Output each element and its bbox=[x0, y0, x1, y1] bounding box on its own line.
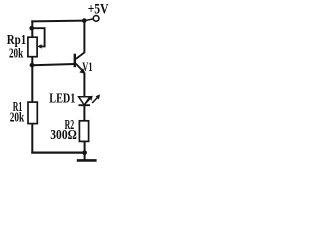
transistor V1 base bar bbox=[74, 54, 76, 67]
resistor R1 body bbox=[28, 102, 37, 124]
node dot top rail bbox=[82, 18, 87, 23]
emitter diagonal bbox=[76, 64, 84, 72]
node dot base bbox=[30, 63, 35, 68]
wire base bbox=[32, 64, 74, 65]
wire emitter vertical bbox=[83, 73, 85, 98]
node dot ground bbox=[82, 150, 87, 155]
LED1 triangle bbox=[79, 97, 90, 105]
LED1 cathode bar bbox=[79, 104, 91, 106]
collector diagonal bbox=[76, 52, 85, 59]
wire top rail bbox=[31, 20, 85, 23]
svg-text:300Ω: 300Ω bbox=[50, 127, 77, 142]
LED1 light arrow 1 bbox=[85, 98, 90, 104]
wire led to r2 bbox=[83, 105, 85, 121]
potentiometer Rp1 body bbox=[28, 37, 37, 57]
wire bottom rail bbox=[31, 152, 84, 154]
wire collector vertical bbox=[83, 21, 85, 53]
svg-text:V1: V1 bbox=[82, 60, 92, 74]
LED1 light arrow 2 bbox=[92, 97, 97, 103]
wiper arrowhead bbox=[37, 44, 41, 48]
svg-text:20k: 20k bbox=[10, 109, 25, 124]
wire left spine bbox=[31, 20, 33, 153]
+5V terminal circle bbox=[93, 16, 99, 22]
wire r2 to rail bbox=[84, 141, 86, 153]
wire wiper loop bbox=[32, 28, 45, 46]
svg-text:20k: 20k bbox=[9, 46, 24, 61]
svg-text:LED1: LED1 bbox=[49, 92, 75, 107]
ground bar bbox=[77, 159, 97, 162]
svg-text:+5V: +5V bbox=[88, 2, 109, 18]
emitter arrowhead bbox=[79, 68, 85, 74]
node dot wiper bbox=[29, 26, 34, 31]
ground stub bbox=[84, 153, 86, 161]
wire terminal stub bbox=[84, 19, 93, 21]
resistor R2 body bbox=[79, 121, 88, 142]
